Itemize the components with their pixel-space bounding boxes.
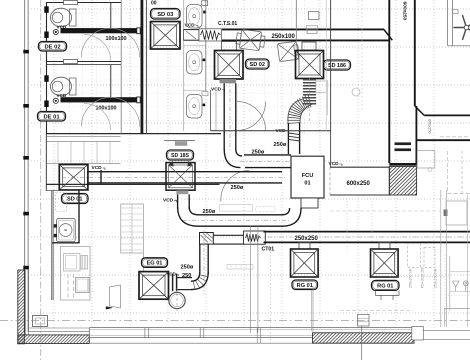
dome arc room 1 [81,28,139,57]
parapet wall corner hatched horizontal [9,335,101,344]
svg-text:250ø: 250ø [203,209,216,215]
duct miter corner [384,29,393,40]
EG VCD damper bars [172,274,174,292]
wall between toilet rooms [47,61,122,63]
door arc room 1 [84,35,111,62]
parapet inner lines [25,270,27,335]
duct C elbow up to FCU [282,208,301,226]
swirl diffuser on duct 2 [277,41,299,61]
SD186 drop duct left line [287,123,289,154]
small outline near flex [316,81,327,93]
svg-text:SD 18S: SD 18S [171,153,189,159]
text 250x250 [293,233,319,241]
wash basin 1 [187,51,203,75]
dome arc room 2 [81,97,139,126]
svg-text:FCU: FCU [302,173,314,179]
grille RG 01 b [371,249,399,277]
dotted verticals right strip [346,195,348,250]
kitchen exhaust drop line [78,190,80,243]
svg-text:VCD: VCD [211,87,222,93]
duct toward flex [213,234,245,236]
SD18S top connection [164,140,195,142]
dashed line upper right [325,0,327,131]
label DE 02 [39,42,67,52]
toilet rooms bottom wall [47,133,222,135]
bathroom bottom wall [211,130,331,132]
closet along wall [46,136,120,138]
plenum 600x250 box [330,167,389,195]
ribbed flex duct below SD186 [303,79,316,81]
shaft marker at centerline [358,315,370,327]
duct C bottom line [198,225,283,227]
fan enclosure walls [447,0,449,46]
svg-text:RG 01: RG 01 [377,284,393,290]
living room top wall [46,183,219,185]
svg-text:100x100: 100x100 [96,105,117,111]
gray equipment dashes lower right [408,244,436,268]
diffuser SD 186 box [296,51,324,79]
label SD 18S [167,150,194,160]
svg-text:VCD: VCD [163,197,174,203]
volume damper bars [395,142,412,145]
wash basin 2 [187,95,203,119]
SD186 collar above [302,42,316,50]
gray dashed line right mid [330,210,440,212]
door arc room 2 [84,104,111,131]
svg-text:250x150 SA: 250x150 SA [409,268,413,288]
RG01a drop line [311,290,313,331]
svg-text:CT01: CT01 [262,246,275,252]
branch duct bottom line [416,139,470,141]
duct B centerline [62,176,285,178]
bathroom inner wall [210,90,212,131]
FCU 01 unit [291,156,324,198]
hidden dashed lines [67,274,69,298]
SD18S bottom collar [176,190,188,194]
striped narrow cabinet [81,256,88,270]
duct C riser right [188,194,190,209]
svg-text:RG 01: RG 01 [297,283,313,289]
toilet room 1 top wall [47,2,122,4]
parapet wall corner hatched vertical [0,270,101,344]
gray dashed duct right [440,136,470,138]
riser duct end cap [389,163,417,166]
duct C elbow [178,207,199,226]
RG01b mount bracket [376,290,400,295]
label SD 03 [151,9,181,20]
diffuser SD 02 box [215,51,244,80]
gray furniture below wall [220,205,253,212]
label RG 01 b [372,280,400,290]
gray valve symbols [449,256,451,311]
toilet fixture room 1 [51,8,72,27]
corridor wall thick [140,0,143,134]
bathtub fittings [309,12,320,20]
label RG 01 a [292,280,318,290]
gray striped band [227,265,253,270]
svg-text:600x250: 600x250 [428,119,432,134]
svg-text:SD 03: SD 03 [157,12,174,18]
setting-out double line with ticks [24,0,26,332]
svg-text:250: 250 [182,273,191,279]
double door arcs [237,102,266,131]
duct C top line [198,214,283,216]
gray vertical line right [467,195,469,327]
duct stub with damper [184,30,200,41]
svg-text:EG 01: EG 01 [147,261,163,267]
main horizontal centerline [0,319,470,321]
svg-text:600x250: 600x250 [402,2,408,21]
chair trapezoid [110,285,121,308]
duct 250x250 bottom line [264,241,470,243]
gray box lower right [446,201,467,225]
label SD 02 [246,59,270,69]
parapet inner lines over balcony [313,327,412,329]
upper cabinet [64,254,81,272]
riser duct right line [414,0,416,106]
label SD 01 [62,194,89,204]
grille EG 01 box [139,272,169,300]
svg-text:FD+VCD 250: FD+VCD 250 [421,267,425,288]
duct C riser left [177,194,179,209]
toilet room 1 right wall [110,3,112,28]
SD02 drop duct left line [223,83,225,150]
diffuser SD 01 box [59,165,88,191]
RG01b riser collar [379,242,390,249]
kitchen sink [57,218,76,241]
svg-text:VCD: VCD [329,161,340,167]
EG branch elbow [191,272,208,290]
gray box right of riser [417,151,435,169]
round duct section circle [169,292,185,308]
kitchen cabinet block [61,247,91,301]
duct B top line [88,171,282,173]
upper-right guide dotted [361,0,363,110]
duct 250x100 bottom line [222,39,389,41]
damper line on duct B [100,170,102,185]
diffuser SD 03 box [151,22,181,50]
EG branch centerline [203,230,205,294]
railing posts [144,328,146,338]
wardrobe right [121,204,144,253]
exhaust duct room 2 100x100 [61,97,137,102]
toilet fixture room 2 [51,77,72,96]
SD02 drop duct right line [235,83,237,150]
swirl diffuser on duct 1 [235,29,265,51]
bathroom right wall upper [295,0,297,42]
label EG 01 [142,258,168,268]
marker rect and dot [202,1,208,6]
EG branch riser right [207,244,209,274]
balcony step right [412,327,424,341]
duct C centerline [183,220,290,222]
duct A bottom line [245,167,291,169]
balcony hatched strip right [302,333,425,343]
dotted line x270 [269,248,271,344]
EG duct bottom line [178,289,193,291]
FCU bottom connection box [301,198,318,208]
svg-text:SD 02: SD 02 [249,62,265,68]
cubicle divider 2 [184,89,206,91]
toilet room 2 right wall [110,65,112,97]
grille RG 01 a [291,249,319,277]
branch miter [415,106,424,115]
svg-text:SD 01: SD 01 [67,197,83,203]
exhaust duct room 1 100x100 [61,28,137,33]
grille SD 18S box [166,163,195,191]
small circle mark [352,88,360,96]
terrace railing lines [89,327,313,329]
svg-text:DE 02: DE 02 [44,44,60,50]
SD02 collar above [222,42,237,51]
label DE 01 [38,112,66,122]
SD02 riser collar [220,79,237,83]
label SD 186 [324,60,351,70]
duct A centerline [240,160,291,162]
EG duct top line [178,277,193,279]
flexible connector zigzag [199,29,222,41]
black tick at parapet top [23,266,29,270]
duct B bottom line [88,182,282,184]
grid dash-dot line [40,0,42,268]
svg-text:DE 01: DE 01 [43,114,60,120]
svg-text:01: 01 [304,181,310,187]
arrow marker [106,307,112,310]
svg-text:C.T.S.01: C.T.S.01 [218,21,237,27]
duct 250x250 connection stub [200,233,214,245]
svg-text:250x100: 250x100 [272,34,296,40]
interior wall lines crossing [249,226,251,333]
SD02 drop centerline [229,80,231,150]
kitchen wall [51,191,53,301]
RG01a riser collar [299,242,310,249]
flexible connector zigzag 2 [244,231,266,244]
EG branch riser left [199,244,201,274]
svg-text:250ø: 250ø [231,185,244,191]
vertical centerline at column [40,268,42,360]
cooktop square [76,278,90,293]
damper ticks on SD186 drop [288,133,299,135]
svg-text:250ø: 250ø [252,150,265,156]
riser right line lower [415,106,417,163]
duct 250x250 top line [264,231,470,233]
wall left of toilet rooms [46,2,48,134]
svg-text:250x250: 250x250 [295,236,319,242]
curved flexible duct [287,95,316,124]
living room left wall [45,134,47,191]
svg-text:100x100: 100x100 [106,36,127,42]
riser duct left line [388,0,390,163]
duct 250x100 top line [222,28,384,30]
ceiling fan symbol [454,16,470,40]
gray dashed line above balcony [340,309,413,311]
unit right wall [330,0,332,167]
duct A top line [244,154,291,156]
cubicle divider 1 [184,44,206,46]
basin counter edge [183,0,185,131]
column detail [33,316,48,327]
door arc living room [221,170,249,201]
svg-text:250x150 RA: 250x150 RA [434,268,438,288]
room right wall thin [120,0,122,134]
svg-text:600x250: 600x250 [347,181,371,187]
wash basin 0 [187,5,203,29]
SD186 drop duct right line [299,123,301,154]
branch duct top line [424,114,470,116]
bathroom partition wall [205,0,207,92]
right bottom frame [444,308,470,310]
svg-text:250ø: 250ø [274,142,287,148]
wall line down [361,326,363,360]
svg-text:250ø: 250ø [181,265,194,271]
fine ceiling grid bathroom+toilets [45,0,332,134]
svg-text:00: 00 [151,0,157,6]
duct 250x250 centerline [245,236,470,238]
drop elbow to horizontal [224,149,240,168]
counter dashed outline [56,193,67,212]
flexible connection hatch at riser base [361,167,447,196]
